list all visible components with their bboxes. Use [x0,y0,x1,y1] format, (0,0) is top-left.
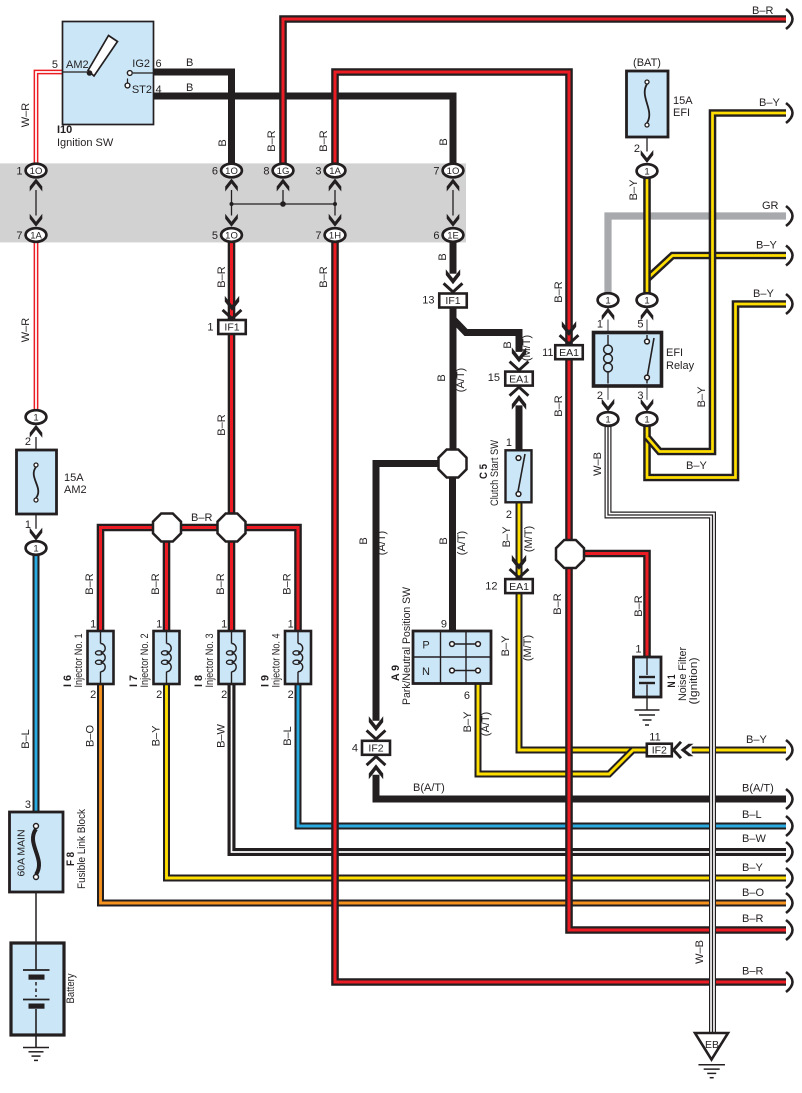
svg-text:B–Y: B–Y [628,179,640,200]
svg-text:B: B [186,57,193,69]
svg-text:15A: 15A [64,472,84,484]
svg-text:B: B [186,82,193,94]
svg-text:B–W: B–W [742,833,766,845]
svg-text:1O: 1O [225,166,238,177]
svg-text:B–Y: B–Y [151,725,163,746]
svg-text:2: 2 [634,143,640,155]
svg-text:(Ignition): (Ignition) [688,658,700,705]
svg-text:Injector No. 3: Injector No. 3 [204,634,216,688]
svg-text:B–R: B–R [742,966,763,978]
svg-text:IF1: IF1 [445,295,460,307]
svg-text:B–Y: B–Y [696,386,708,407]
svg-text:1: 1 [605,414,610,425]
svg-text:3: 3 [637,390,643,402]
svg-text:B: B [436,374,448,381]
svg-text:B–Y: B–Y [742,862,763,874]
svg-text:5: 5 [212,230,218,242]
svg-text:B–Y: B–Y [756,240,777,252]
svg-text:Park/Neutral Position SW: Park/Neutral Position SW [401,586,413,705]
svg-text:EA1: EA1 [559,347,579,359]
svg-text:B–R: B–R [553,281,565,302]
svg-text:1: 1 [288,619,294,631]
svg-text:I10: I10 [57,124,72,136]
svg-text:B–Y: B–Y [686,460,707,472]
svg-text:1A: 1A [329,166,341,177]
svg-text:B–R: B–R [84,573,96,594]
svg-text:B: B [438,537,450,544]
svg-text:15A: 15A [673,95,693,107]
svg-text:W–B: W–B [694,940,706,964]
svg-text:EA1: EA1 [509,581,529,593]
svg-text:6: 6 [212,166,218,178]
svg-text:W–B: W–B [592,452,604,476]
svg-text:5: 5 [52,59,58,71]
svg-text:Injector No. 4: Injector No. 4 [271,634,283,688]
svg-text:4: 4 [352,743,358,755]
svg-text:IF2: IF2 [652,745,667,757]
svg-text:(A/T): (A/T) [480,712,492,736]
svg-text:13: 13 [422,295,434,307]
svg-text:(A/T): (A/T) [456,531,468,555]
svg-text:12: 12 [485,581,497,593]
svg-text:7: 7 [433,166,439,178]
svg-text:P: P [422,640,429,652]
svg-text:Battery: Battery [65,973,77,1003]
svg-text:B–R: B–R [553,395,565,416]
svg-text:1: 1 [644,166,649,177]
svg-text:IF2: IF2 [368,743,383,755]
svg-text:B–R: B–R [150,573,162,594]
svg-text:B–R: B–R [266,130,278,151]
svg-text:2: 2 [221,689,227,701]
svg-text:15: 15 [488,372,500,384]
svg-text:1: 1 [33,543,38,554]
svg-text:2: 2 [90,689,96,701]
svg-text:2: 2 [597,390,603,402]
svg-text:1: 1 [644,295,649,306]
svg-text:Injector No. 2: Injector No. 2 [139,634,151,688]
svg-text:B–Y: B–Y [462,711,474,732]
svg-text:Injector No. 1: Injector No. 1 [73,634,85,688]
svg-text:1E: 1E [447,230,459,241]
svg-text:AM2: AM2 [64,484,87,496]
svg-text:7: 7 [16,230,22,242]
svg-text:2: 2 [156,689,162,701]
svg-text:B(A/T): B(A/T) [742,783,774,795]
svg-text:1: 1 [635,644,641,656]
svg-text:2: 2 [506,509,512,521]
svg-text:B–R: B–R [318,130,330,151]
svg-text:(A/T): (A/T) [455,368,467,392]
svg-text:W–R: W–R [20,318,32,343]
svg-text:B: B [438,138,450,145]
svg-text:2: 2 [25,436,31,448]
svg-text:1: 1 [605,295,610,306]
svg-text:B: B [502,341,514,348]
svg-text:IG2: IG2 [132,58,150,70]
svg-text:(M/T): (M/T) [523,526,535,552]
svg-text:7: 7 [315,230,321,242]
svg-text:B: B [358,537,370,544]
svg-text:9: 9 [441,619,447,631]
svg-text:B–Y: B–Y [501,526,513,547]
svg-text:B: B [437,253,449,260]
svg-text:1: 1 [207,322,213,334]
svg-text:Fusible Link Block: Fusible Link Block [76,809,88,889]
svg-text:B–R: B–R [552,593,564,614]
svg-text:11: 11 [542,347,553,359]
svg-text:1O: 1O [225,230,238,241]
svg-text:1: 1 [156,619,162,631]
svg-text:B–R: B–R [216,414,228,435]
svg-text:EA1: EA1 [509,373,529,385]
svg-text:60A MAIN: 60A MAIN [17,830,28,877]
svg-text:1H: 1H [329,230,341,241]
svg-text:IF1: IF1 [224,322,239,334]
svg-text:8: 8 [263,166,269,178]
svg-text:EB: EB [705,1039,719,1051]
svg-text:1O: 1O [447,166,460,177]
svg-text:Ignition SW: Ignition SW [57,137,114,149]
svg-text:B–R: B–R [633,595,645,616]
svg-text:1: 1 [644,414,649,425]
svg-text:B–R: B–R [742,913,763,925]
svg-text:B–L: B–L [282,726,294,746]
svg-text:B–O: B–O [742,887,764,899]
svg-text:B–Y: B–Y [759,97,780,109]
svg-text:Relay: Relay [666,360,695,372]
svg-text:4: 4 [156,84,162,96]
svg-text:1G: 1G [277,166,290,177]
svg-text:(M/T): (M/T) [521,335,533,361]
svg-text:1: 1 [597,319,603,331]
svg-text:3: 3 [25,799,31,811]
svg-text:B–W: B–W [216,723,228,747]
svg-text:3: 3 [315,166,321,178]
svg-text:11: 11 [649,732,660,744]
svg-text:GR: GR [762,200,779,212]
svg-text:B–O: B–O [85,725,97,747]
svg-text:W–R: W–R [20,103,32,128]
svg-text:(BAT): (BAT) [633,57,661,69]
svg-text:B–Y: B–Y [746,734,767,746]
svg-text:B–R: B–R [282,573,294,594]
svg-text:B–Y: B–Y [753,288,774,300]
svg-text:(M/T): (M/T) [522,635,534,661]
svg-text:1: 1 [16,166,22,178]
svg-text:B(A/T): B(A/T) [413,782,445,794]
svg-text:B–R: B–R [752,5,773,17]
svg-text:1A: 1A [30,230,42,241]
svg-text:1O: 1O [30,166,43,177]
svg-text:B–R: B–R [191,512,212,524]
svg-text:B–R: B–R [318,266,330,287]
svg-text:B–R: B–R [216,266,228,287]
svg-text:B–R: B–R [215,573,227,594]
svg-text:1: 1 [221,619,227,631]
svg-text:6: 6 [464,690,470,702]
svg-text:6: 6 [433,230,439,242]
svg-text:ST2: ST2 [132,84,152,96]
svg-text:1: 1 [506,437,512,449]
svg-text:(A/T): (A/T) [376,531,388,555]
svg-text:2: 2 [288,689,294,701]
svg-text:N: N [422,666,430,678]
svg-text:B: B [217,139,229,146]
svg-text:EFI: EFI [673,107,690,119]
svg-text:1: 1 [90,619,96,631]
svg-text:B–L: B–L [742,809,762,821]
svg-text:EFI: EFI [666,347,683,359]
svg-text:6: 6 [156,58,162,70]
svg-text:1: 1 [25,519,31,531]
svg-text:B–Y: B–Y [500,635,512,656]
svg-text:Clutch Start SW: Clutch Start SW [489,439,501,506]
svg-text:5: 5 [637,319,643,331]
svg-text:B–L: B–L [20,729,32,749]
svg-text:1: 1 [33,412,38,423]
svg-text:AM2: AM2 [66,59,89,71]
